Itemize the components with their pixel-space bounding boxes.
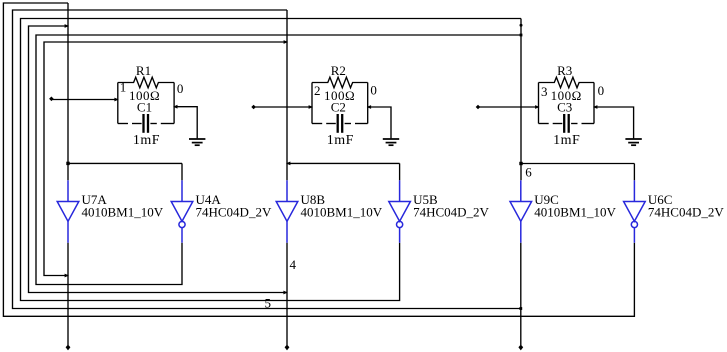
buffer U9C — [510, 180, 532, 242]
wire stage1 RC output to ground — [174, 107, 197, 139]
resistor R3 — [539, 77, 595, 88]
svg-text:74HC04D_2V: 74HC04D_2V — [413, 205, 489, 220]
junction diamond stage3 input — [476, 105, 481, 110]
wire loop6 U7A output to node 2 — [44, 42, 287, 276]
svg-text:6: 6 — [525, 164, 532, 179]
junction arrow loop6 to U7A output — [65, 274, 69, 278]
wire stage2 gate connector — [287, 162, 400, 164]
svg-text:3: 3 — [541, 84, 548, 99]
stage1 box left side — [117, 83, 119, 124]
off-page arrow under U7A — [66, 345, 71, 351]
off-page arrow under U9C — [518, 345, 523, 351]
junction loop5 to node3 — [520, 34, 523, 37]
wire U5B input drop — [399, 163, 401, 180]
svg-text:74HC04D_2V: 74HC04D_2V — [648, 205, 724, 220]
inverter U4A — [171, 180, 193, 242]
inverter U5B — [389, 180, 411, 242]
wire loop4 U8B output to node 1 — [29, 26, 287, 293]
svg-text:5: 5 — [265, 296, 272, 311]
svg-text:4010BM1_10V: 4010BM1_10V — [82, 205, 164, 220]
svg-text:0: 0 — [177, 81, 184, 96]
off-page arrow under U8B — [285, 345, 290, 351]
wire U6C input drop — [633, 164, 635, 181]
buffer U7A — [57, 180, 79, 242]
wire node 2 vertical to U8B input — [286, 10, 288, 180]
junction dot stage3 connector — [519, 162, 522, 165]
junction arrow stage2 connector — [286, 162, 290, 166]
svg-text:4: 4 — [290, 257, 297, 272]
svg-text:0: 0 — [598, 83, 605, 98]
stage1 box right side — [173, 83, 175, 124]
junction diamond stage1 input — [49, 97, 54, 102]
stage3 box left side — [538, 83, 540, 124]
svg-text:R2: R2 — [331, 63, 346, 78]
wire loop5 U4A output to node 3 — [36, 35, 521, 285]
wire stage2 RC output to ground — [368, 107, 391, 138]
svg-text:4010BM1_10V: 4010BM1_10V — [301, 205, 383, 220]
wire U8B output down — [286, 243, 288, 346]
svg-text:1: 1 — [120, 80, 127, 95]
ground stage2 — [383, 139, 399, 145]
wire stage1 gate connector — [68, 162, 182, 164]
wire stage3 RC input stub — [478, 106, 539, 108]
wire U7A output down — [67, 243, 69, 346]
wire loop3 U5B output to node 3 top — [21, 19, 522, 301]
junction diamond stage2 input — [251, 105, 256, 110]
resistor R1 — [118, 77, 174, 88]
svg-text:4010BM1_10V: 4010BM1_10V — [534, 205, 616, 220]
wire loop1 U6C output to node 1 top — [3, 3, 634, 316]
svg-text:R3: R3 — [557, 63, 572, 78]
wire stage2 RC input stub — [254, 106, 312, 108]
stage2 box right side — [367, 83, 369, 124]
svg-text:C1: C1 — [137, 100, 152, 115]
wire node 3 vertical to U9C input — [520, 19, 522, 181]
svg-text:1mF: 1mF — [133, 133, 160, 148]
stage3 box right side — [593, 83, 595, 124]
capacitor C2 — [312, 114, 368, 133]
stage2 box left side — [311, 83, 313, 124]
junction arrow loop6 to node2 — [284, 40, 288, 44]
wire U9C output down — [520, 243, 522, 346]
junction loop2 to U9C output — [519, 307, 522, 310]
junction dot on node3 vertical — [520, 24, 523, 27]
buffer U8B — [276, 180, 298, 242]
junction arrow at stage1 box output — [173, 105, 177, 109]
wire U4A input drop — [181, 163, 183, 180]
wire stage3 RC output to ground — [594, 107, 634, 138]
svg-text:2: 2 — [314, 83, 321, 98]
svg-text:1mF: 1mF — [553, 133, 580, 148]
wire stage1 RC input stub — [51, 99, 117, 101]
svg-text:R1: R1 — [136, 63, 151, 78]
inverter U6C — [624, 180, 646, 242]
resistor R2 — [312, 77, 368, 88]
svg-text:74HC04D_2V: 74HC04D_2V — [196, 205, 272, 220]
svg-text:1mF: 1mF — [327, 133, 354, 148]
junction arrow at stage2 box input — [309, 105, 313, 109]
capacitor C3 — [539, 114, 595, 133]
junction arrow loop4 to node1 — [65, 24, 69, 28]
ground stage1 — [189, 139, 205, 145]
junction arrow at stage2 box output — [367, 105, 371, 109]
ground stage3 — [625, 139, 641, 145]
wire loop2 U9C output to node 2 top — [13, 10, 521, 309]
junction arrow at stage1 box input — [114, 98, 118, 102]
junction arrow at stage3 box output — [593, 105, 597, 109]
capacitor C1 — [118, 114, 174, 133]
junction arrow at stage3 box input — [535, 105, 539, 109]
wire stage3 gate connector — [521, 163, 634, 165]
svg-text:C2: C2 — [331, 100, 346, 115]
svg-text:C3: C3 — [557, 100, 572, 115]
svg-text:0: 0 — [370, 82, 377, 97]
junction arrow loop4 to U8B output — [283, 291, 287, 295]
junction dot stage1 connector — [66, 162, 69, 165]
wire node 1 vertical to U7A input — [67, 3, 69, 180]
